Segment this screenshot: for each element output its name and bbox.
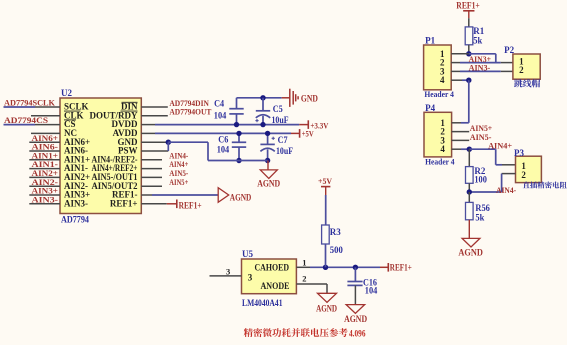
svg-text:5k: 5k xyxy=(473,35,482,45)
svg-text:P3: P3 xyxy=(514,148,524,158)
svg-text:2: 2 xyxy=(521,170,526,180)
svg-text:AGND: AGND xyxy=(344,315,367,325)
svg-text:AD7794: AD7794 xyxy=(61,215,89,225)
svg-text:5k: 5k xyxy=(475,212,484,222)
svg-text:GND: GND xyxy=(301,95,318,105)
svg-text:100: 100 xyxy=(474,175,487,185)
svg-text:3: 3 xyxy=(226,267,230,277)
svg-text:1: 1 xyxy=(302,257,306,267)
svg-text:4: 4 xyxy=(440,75,445,85)
svg-text:2: 2 xyxy=(519,65,524,75)
svg-text:AD7794CS: AD7794CS xyxy=(4,115,48,125)
svg-text:CAHOED: CAHOED xyxy=(255,263,290,273)
svg-text:10uF: 10uF xyxy=(272,115,289,125)
svg-text:AGND: AGND xyxy=(230,194,252,204)
svg-text:R3: R3 xyxy=(330,227,341,237)
svg-text:104: 104 xyxy=(365,286,378,296)
svg-text:Header 4: Header 4 xyxy=(424,89,454,99)
svg-text:REF1+: REF1+ xyxy=(456,0,480,10)
svg-text:4: 4 xyxy=(440,144,445,154)
svg-text:C7: C7 xyxy=(278,135,288,145)
svg-text:104: 104 xyxy=(214,111,227,121)
svg-text:AGND: AGND xyxy=(458,248,483,258)
svg-text:P1: P1 xyxy=(425,36,435,46)
svg-text:AIN4+: AIN4+ xyxy=(488,141,512,151)
svg-text:P2: P2 xyxy=(504,45,514,55)
svg-text:AD7794OUT: AD7794OUT xyxy=(169,107,211,117)
svg-text:104: 104 xyxy=(217,144,230,154)
svg-text:R1: R1 xyxy=(473,26,484,36)
svg-text:Header 4: Header 4 xyxy=(425,156,455,166)
svg-text:2: 2 xyxy=(302,274,306,284)
svg-text:LM4040A41: LM4040A41 xyxy=(242,298,283,308)
svg-text:4.096: 4.096 xyxy=(349,329,366,339)
svg-text:AIN3-: AIN3- xyxy=(469,62,491,72)
svg-text:3: 3 xyxy=(248,272,253,282)
svg-text:AIN5+: AIN5+ xyxy=(169,177,188,187)
svg-text:AIN3-: AIN3- xyxy=(64,198,88,208)
svg-text:U5: U5 xyxy=(242,249,253,259)
svg-text:AGND: AGND xyxy=(316,305,337,315)
svg-text:REF1+: REF1+ xyxy=(110,198,138,208)
svg-text:AIN3-: AIN3- xyxy=(32,194,59,204)
svg-text:AGND: AGND xyxy=(257,179,280,189)
svg-text:C6: C6 xyxy=(218,135,228,145)
svg-text:REF1+: REF1+ xyxy=(179,201,202,211)
svg-text:AD7794SCLK: AD7794SCLK xyxy=(4,98,55,108)
svg-text:REF1+: REF1+ xyxy=(390,263,412,273)
svg-text:10uF: 10uF xyxy=(276,146,293,156)
svg-text:P4: P4 xyxy=(425,103,435,113)
svg-text:500: 500 xyxy=(330,245,343,255)
svg-text:+5V: +5V xyxy=(302,128,314,138)
svg-text:C4: C4 xyxy=(214,99,224,109)
svg-text:C5: C5 xyxy=(273,104,283,114)
svg-text:+5V: +5V xyxy=(318,176,333,186)
svg-text:AIN4-: AIN4- xyxy=(496,185,516,195)
svg-text:ANODE: ANODE xyxy=(261,281,290,291)
svg-text:U2: U2 xyxy=(61,88,72,98)
